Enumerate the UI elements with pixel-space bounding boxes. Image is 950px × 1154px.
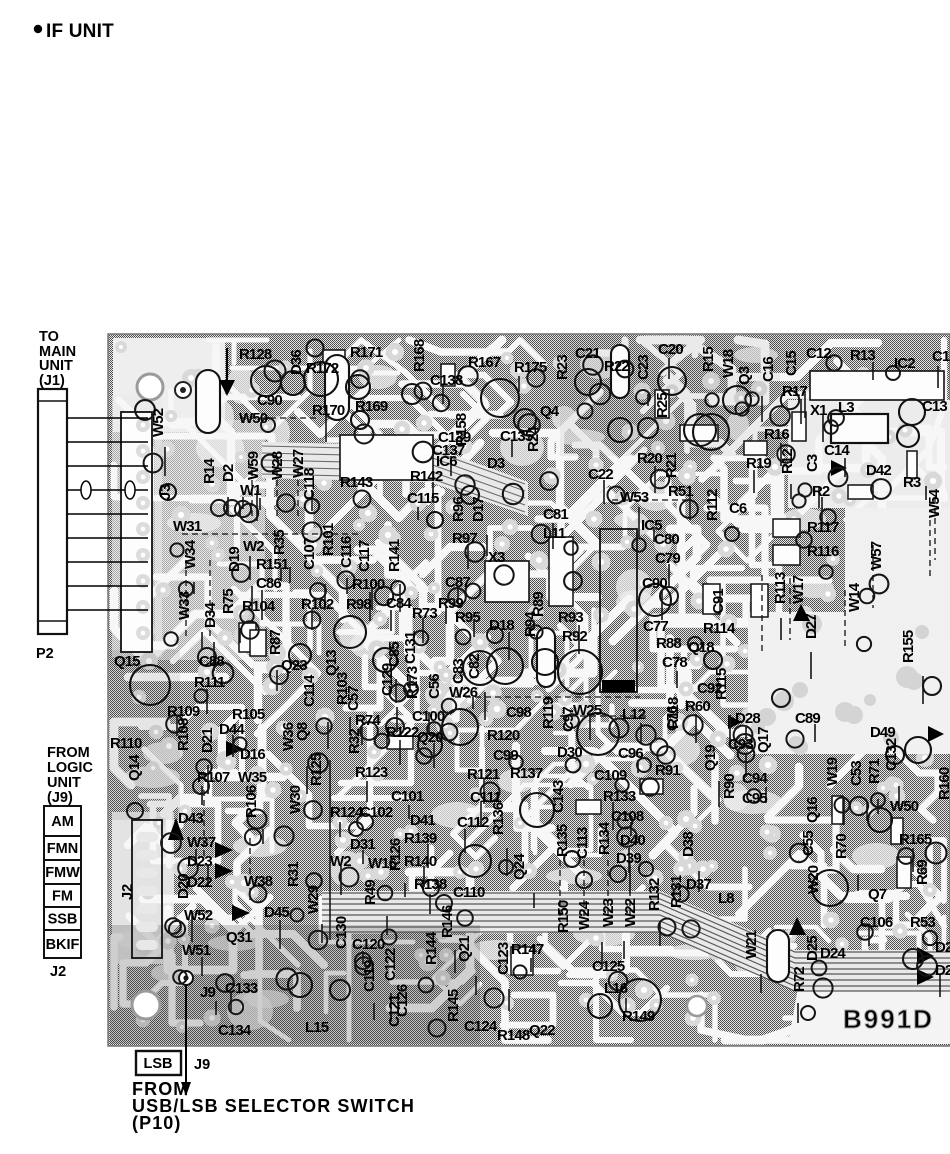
svg-text:C94: C94 — [742, 770, 768, 787]
svg-text:Q17: Q17 — [755, 727, 772, 753]
svg-text:C138: C138 — [430, 372, 463, 389]
svg-text:R149: R149 — [622, 1008, 655, 1025]
svg-text:D28: D28 — [735, 710, 760, 727]
svg-text:C110: C110 — [453, 884, 485, 901]
svg-text:Q16: Q16 — [804, 797, 821, 823]
svg-text:Q24: Q24 — [511, 853, 528, 880]
svg-text:R173: R173 — [404, 666, 421, 699]
svg-text:IF UNIT: IF UNIT — [46, 21, 114, 42]
svg-text:D25: D25 — [804, 936, 821, 961]
svg-text:C115: C115 — [407, 490, 439, 507]
svg-text:FMN: FMN — [47, 841, 78, 857]
svg-text:R139: R139 — [404, 830, 437, 847]
svg-text:Q23: Q23 — [281, 657, 307, 674]
svg-text:W33: W33 — [176, 591, 193, 620]
svg-text:D18: D18 — [489, 617, 514, 634]
svg-text:R148: R148 — [497, 1027, 530, 1044]
svg-text:D44: D44 — [219, 721, 245, 738]
svg-text:R102: R102 — [301, 596, 334, 613]
svg-text:R14: R14 — [201, 458, 218, 484]
svg-text:Q20: Q20 — [417, 729, 443, 746]
svg-text:R100: R100 — [352, 576, 385, 593]
svg-text:L11: L11 — [543, 525, 566, 542]
svg-text:C77: C77 — [643, 618, 668, 635]
svg-text:W21: W21 — [743, 930, 760, 959]
svg-text:D36: D36 — [288, 350, 305, 375]
svg-text:R119: R119 — [540, 697, 557, 729]
svg-text:R20: R20 — [637, 450, 662, 467]
svg-text:UNIT: UNIT — [47, 775, 81, 791]
svg-text:TO: TO — [39, 329, 59, 345]
svg-text:C90: C90 — [642, 575, 667, 592]
svg-text:C131: C131 — [402, 631, 419, 664]
svg-text:Q21: Q21 — [456, 936, 473, 962]
svg-text:D27: D27 — [803, 614, 820, 639]
svg-text:R70: R70 — [833, 834, 850, 859]
svg-text:R112: R112 — [704, 489, 721, 521]
svg-text:R88: R88 — [656, 635, 681, 652]
svg-text:FROM: FROM — [47, 745, 90, 761]
svg-text:R12: R12 — [779, 449, 796, 474]
svg-text:C14: C14 — [824, 442, 850, 459]
svg-text:R94: R94 — [522, 611, 539, 637]
svg-text:W24: W24 — [576, 900, 593, 930]
svg-text:R87: R87 — [267, 630, 284, 655]
svg-text:R15: R15 — [700, 347, 717, 372]
svg-text:R72: R72 — [791, 967, 808, 992]
svg-text:X1: X1 — [810, 402, 827, 419]
svg-text:D39: D39 — [616, 850, 641, 867]
svg-text:W50: W50 — [890, 798, 919, 815]
svg-text:R128: R128 — [239, 346, 272, 363]
svg-text:D3: D3 — [487, 455, 505, 472]
svg-text:W20: W20 — [805, 865, 822, 894]
svg-text:C118: C118 — [301, 468, 318, 500]
svg-text:R126: R126 — [387, 838, 404, 871]
svg-text:R131: R131 — [668, 875, 685, 908]
svg-text:R150: R150 — [555, 900, 572, 933]
svg-text:C22: C22 — [588, 466, 613, 483]
svg-text:R165: R165 — [899, 831, 932, 848]
svg-text:W52: W52 — [184, 907, 213, 924]
svg-text:R175: R175 — [514, 359, 547, 376]
svg-text:C12: C12 — [806, 345, 831, 362]
svg-text:C90: C90 — [257, 392, 282, 409]
svg-text:C55: C55 — [800, 831, 817, 856]
svg-text:C106: C106 — [860, 914, 893, 931]
svg-text:R133: R133 — [603, 788, 636, 805]
svg-text:C130: C130 — [333, 916, 350, 949]
svg-text:C87: C87 — [445, 574, 470, 591]
svg-text:R24: R24 — [525, 426, 542, 452]
svg-text:C56: C56 — [426, 674, 443, 699]
svg-text:J3: J3 — [158, 484, 174, 500]
svg-text:R25: R25 — [654, 393, 671, 418]
svg-text:R132: R132 — [646, 878, 663, 911]
svg-text:C21: C21 — [575, 345, 600, 362]
svg-text:C143: C143 — [550, 780, 567, 813]
svg-text:R90: R90 — [721, 774, 738, 799]
svg-text:D43: D43 — [178, 810, 203, 827]
svg-text:C3: C3 — [804, 454, 821, 472]
svg-text:C101: C101 — [391, 788, 424, 805]
svg-text:R32: R32 — [346, 729, 363, 754]
svg-text:R144: R144 — [423, 931, 440, 965]
svg-text:C85: C85 — [386, 642, 403, 667]
svg-text:R155: R155 — [900, 630, 917, 663]
svg-text:R60: R60 — [685, 698, 710, 715]
svg-text:R151: R151 — [256, 556, 289, 573]
svg-text:D2: D2 — [220, 464, 237, 482]
svg-text:R170: R170 — [312, 402, 345, 419]
svg-text:D16: D16 — [240, 746, 265, 763]
svg-text:J2: J2 — [50, 964, 66, 980]
svg-text:R114: R114 — [703, 620, 736, 637]
svg-text:W54: W54 — [926, 488, 943, 518]
svg-text:R75: R75 — [220, 589, 237, 614]
svg-text:W31: W31 — [173, 518, 202, 535]
svg-text:R107: R107 — [197, 769, 230, 786]
svg-text:C1: C1 — [932, 348, 950, 365]
svg-text:W29: W29 — [305, 885, 322, 914]
svg-text:R134: R134 — [596, 821, 613, 855]
svg-text:R74: R74 — [355, 712, 381, 729]
svg-text:Q22: Q22 — [529, 1022, 555, 1039]
svg-text:C123: C123 — [495, 942, 512, 975]
svg-text:C91: C91 — [710, 589, 727, 614]
svg-text:C107: C107 — [301, 537, 318, 570]
svg-text:R22: R22 — [604, 358, 629, 375]
svg-text:C86: C86 — [256, 575, 281, 592]
svg-text:Q19: Q19 — [702, 745, 719, 771]
svg-text:SSB: SSB — [48, 912, 78, 928]
svg-text:C139: C139 — [438, 429, 471, 446]
svg-text:R95: R95 — [455, 609, 480, 626]
svg-text:C116: C116 — [338, 536, 355, 568]
svg-text:R109: R109 — [167, 703, 200, 720]
svg-text:R136: R136 — [490, 802, 507, 835]
svg-text:C120: C120 — [352, 936, 385, 953]
svg-text:C100: C100 — [412, 708, 445, 725]
svg-text:IC2: IC2 — [894, 355, 915, 372]
svg-text:R21: R21 — [663, 453, 680, 478]
svg-text:R172: R172 — [306, 360, 339, 377]
svg-text:W35: W35 — [238, 769, 267, 786]
svg-text:W50: W50 — [239, 410, 268, 427]
svg-text:R142: R142 — [410, 468, 443, 485]
svg-text:R169: R169 — [355, 398, 388, 415]
svg-text:W26: W26 — [449, 684, 478, 701]
svg-text:W17: W17 — [790, 575, 807, 604]
svg-text:D40: D40 — [620, 832, 645, 849]
svg-text:W1: W1 — [240, 482, 261, 499]
svg-text:W38: W38 — [244, 873, 273, 890]
svg-text:R147: R147 — [511, 941, 544, 958]
svg-text:R140: R140 — [404, 853, 437, 870]
svg-text:C119: C119 — [361, 960, 378, 992]
svg-text:Q13: Q13 — [323, 650, 340, 676]
svg-text:C23: C23 — [635, 355, 652, 380]
svg-text:L12: L12 — [622, 706, 646, 723]
svg-text:J9: J9 — [200, 984, 215, 1001]
svg-text:C15: C15 — [783, 351, 800, 376]
svg-text:W19: W19 — [824, 757, 841, 786]
svg-text:W52: W52 — [150, 408, 167, 437]
svg-text:C79: C79 — [655, 550, 680, 567]
svg-text:R71: R71 — [866, 759, 883, 784]
svg-text:C13: C13 — [922, 398, 947, 415]
svg-text:R98: R98 — [346, 596, 371, 613]
svg-text:C53: C53 — [848, 761, 865, 786]
svg-text:R116: R116 — [807, 543, 839, 560]
svg-text:W14: W14 — [846, 582, 863, 612]
svg-text:(J9): (J9) — [47, 790, 73, 806]
svg-text:J2: J2 — [120, 884, 136, 900]
svg-text:B991D: B991D — [843, 1004, 934, 1034]
svg-text:L3: L3 — [838, 399, 854, 416]
svg-text:R123: R123 — [355, 764, 388, 781]
svg-text:C125: C125 — [592, 958, 625, 975]
svg-text:R96: R96 — [450, 497, 467, 522]
svg-text:R92: R92 — [562, 628, 587, 645]
svg-text:R110: R110 — [110, 735, 142, 752]
svg-text:(J1): (J1) — [39, 373, 65, 389]
svg-text:W2: W2 — [330, 853, 351, 870]
svg-text:D21: D21 — [199, 728, 216, 753]
svg-text:R49: R49 — [362, 880, 379, 905]
svg-text:R141: R141 — [386, 539, 403, 572]
svg-text:W59: W59 — [245, 451, 262, 480]
svg-text:D42: D42 — [866, 462, 891, 479]
svg-text:L15: L15 — [305, 1019, 329, 1036]
svg-text:R168: R168 — [411, 339, 428, 372]
svg-text:R17: R17 — [782, 383, 807, 400]
svg-text:C89: C89 — [795, 710, 820, 727]
svg-text:C83: C83 — [450, 659, 467, 684]
svg-text:BKIF: BKIF — [46, 937, 80, 953]
svg-text:W57: W57 — [868, 541, 885, 570]
svg-text:FMW: FMW — [45, 865, 80, 881]
svg-text:R35: R35 — [271, 530, 288, 555]
svg-text:D37: D37 — [686, 876, 711, 893]
svg-text:C78: C78 — [662, 654, 687, 671]
svg-text:D49: D49 — [870, 724, 895, 741]
svg-text:C133: C133 — [225, 980, 258, 997]
svg-text:W22: W22 — [622, 898, 639, 927]
svg-text:C122: C122 — [382, 948, 399, 981]
svg-text:Q15: Q15 — [114, 653, 140, 670]
svg-text:W30: W30 — [287, 785, 304, 814]
svg-text:Q7: Q7 — [868, 886, 887, 903]
svg-text:R19: R19 — [746, 455, 771, 472]
svg-text:R113: R113 — [772, 572, 789, 604]
svg-text:C95: C95 — [742, 790, 767, 807]
svg-text:C99: C99 — [493, 747, 518, 764]
svg-text:FM: FM — [52, 889, 73, 905]
svg-text:D20: D20 — [175, 874, 192, 899]
svg-text:C102: C102 — [360, 804, 393, 821]
svg-text:D30: D30 — [557, 744, 582, 761]
svg-text:R171: R171 — [350, 344, 383, 361]
svg-text:C114: C114 — [301, 674, 318, 707]
svg-text:P2: P2 — [36, 646, 54, 662]
svg-text:C6: C6 — [729, 500, 747, 517]
svg-text:R2: R2 — [812, 483, 830, 500]
svg-text:X3: X3 — [488, 549, 505, 566]
svg-text:C129: C129 — [379, 663, 396, 696]
svg-text:W53: W53 — [620, 489, 649, 506]
svg-text:W18: W18 — [720, 349, 737, 378]
svg-text:L8: L8 — [718, 890, 734, 907]
svg-text:IC6: IC6 — [436, 453, 457, 470]
svg-text:C96: C96 — [618, 745, 643, 762]
svg-text:D38: D38 — [680, 832, 697, 857]
svg-text:D23: D23 — [187, 853, 212, 870]
svg-text:C108: C108 — [611, 808, 644, 825]
svg-text:D19: D19 — [226, 547, 243, 572]
svg-text:J9: J9 — [194, 1057, 210, 1073]
svg-text:C57: C57 — [345, 686, 362, 711]
svg-text:C97: C97 — [560, 707, 577, 732]
svg-text:W28: W28 — [269, 451, 286, 480]
svg-text:C81: C81 — [543, 506, 568, 523]
svg-text:C113: C113 — [574, 827, 591, 859]
svg-text:C88: C88 — [199, 653, 224, 670]
svg-text:C124: C124 — [464, 1018, 498, 1035]
svg-text:R104: R104 — [242, 598, 276, 615]
svg-text:C20: C20 — [658, 341, 683, 358]
svg-text:R135: R135 — [554, 824, 571, 857]
svg-text:C112: C112 — [457, 814, 489, 831]
svg-text:C80: C80 — [654, 531, 679, 548]
svg-text:R16: R16 — [764, 426, 789, 443]
svg-text:Q31: Q31 — [226, 929, 252, 946]
svg-text:Q4: Q4 — [540, 403, 560, 420]
svg-text:AM: AM — [51, 814, 74, 830]
svg-text:R53: R53 — [910, 914, 935, 931]
svg-text:R73: R73 — [412, 605, 437, 622]
svg-text:(P10): (P10) — [132, 1113, 182, 1133]
svg-text:R23: R23 — [554, 355, 571, 380]
svg-text:R143: R143 — [340, 474, 373, 491]
svg-text:R101: R101 — [320, 523, 337, 556]
svg-text:D41: D41 — [410, 812, 435, 829]
svg-text:R106: R106 — [243, 785, 260, 818]
svg-text:R121: R121 — [467, 766, 500, 783]
svg-text:R124: R124 — [330, 804, 364, 821]
svg-text:C126: C126 — [394, 984, 411, 1017]
svg-text:D24: D24 — [820, 945, 846, 962]
svg-text:R120: R120 — [487, 727, 520, 744]
svg-text:LSB: LSB — [144, 1056, 173, 1072]
svg-text:D31: D31 — [350, 836, 375, 853]
svg-text:R93: R93 — [558, 609, 583, 626]
svg-text:W34: W34 — [182, 539, 199, 569]
svg-text:C134: C134 — [218, 1022, 252, 1039]
svg-text:C16: C16 — [760, 357, 777, 382]
svg-text:D2: D2 — [935, 939, 950, 956]
svg-text:W2: W2 — [243, 538, 264, 555]
svg-text:D17: D17 — [470, 497, 487, 522]
svg-text:D45: D45 — [264, 904, 289, 921]
svg-text:C132: C132 — [883, 738, 900, 771]
svg-text:Q8: Q8 — [294, 722, 311, 741]
svg-text:R97: R97 — [452, 530, 477, 547]
svg-text:Q3: Q3 — [736, 366, 753, 385]
svg-text:L16: L16 — [604, 980, 628, 997]
svg-text:R167: R167 — [468, 354, 501, 371]
svg-text:D2: D2 — [935, 962, 950, 979]
svg-text:R138: R138 — [414, 876, 447, 893]
svg-text:R146: R146 — [439, 905, 456, 938]
svg-text:W37: W37 — [187, 834, 216, 851]
svg-text:R13: R13 — [850, 347, 875, 364]
svg-text:LOGIC: LOGIC — [47, 760, 93, 776]
svg-text:R3: R3 — [903, 474, 921, 491]
svg-text:C93: C93 — [728, 736, 753, 753]
svg-text:R115: R115 — [713, 668, 730, 700]
svg-text:C98: C98 — [506, 704, 531, 721]
svg-text:R117: R117 — [807, 519, 839, 536]
svg-text:UNIT: UNIT — [39, 358, 73, 374]
svg-text:R118: R118 — [665, 697, 682, 729]
svg-text:C84: C84 — [386, 595, 412, 612]
svg-text:C82: C82 — [466, 654, 483, 679]
svg-text:R160: R160 — [936, 767, 950, 800]
svg-text:W23: W23 — [600, 898, 617, 927]
svg-text:R125: R125 — [308, 753, 325, 786]
svg-text:D34: D34 — [202, 602, 219, 628]
svg-text:W25: W25 — [573, 702, 602, 719]
svg-text:R31: R31 — [285, 862, 302, 887]
svg-text:R145: R145 — [445, 989, 462, 1022]
svg-text:Q14: Q14 — [126, 754, 143, 781]
svg-text:R51: R51 — [668, 483, 693, 500]
svg-text:R108: R108 — [175, 718, 192, 751]
svg-text:Q18: Q18 — [688, 639, 714, 656]
svg-text:C117: C117 — [356, 540, 373, 572]
svg-text:R91: R91 — [655, 762, 680, 779]
svg-text:R122: R122 — [386, 724, 419, 741]
svg-text:R69: R69 — [914, 860, 931, 885]
svg-text:W51: W51 — [182, 942, 211, 959]
svg-text:R137: R137 — [510, 765, 543, 782]
svg-text:C109: C109 — [594, 767, 627, 784]
svg-text:R111: R111 — [194, 674, 225, 691]
